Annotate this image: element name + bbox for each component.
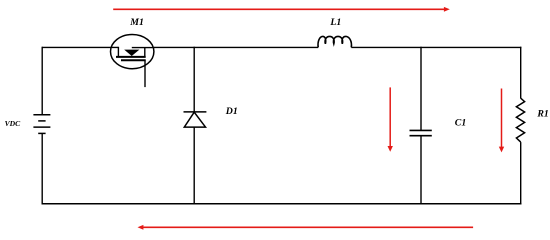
svg-text:M1: M1 [129, 17, 144, 28]
wire left vertical bottom [41, 133, 43, 204]
svg-text:VDC: VDC [5, 119, 22, 128]
current arrow bottom (return current, pointing left) [138, 225, 474, 230]
battery VDC [33, 115, 50, 134]
resistor R1 [516, 98, 524, 142]
wire top rail right [351, 46, 521, 48]
svg-text:D1: D1 [225, 106, 238, 117]
current arrow (load current, pointing down) [499, 89, 504, 153]
svg-text:L1: L1 [329, 17, 341, 28]
wire left vertical top [41, 47, 43, 115]
wire C1 bottom [420, 136, 422, 205]
transistor M1 (MOSFET) [111, 35, 155, 88]
current arrow (inductor output current, pointing down) [388, 87, 393, 151]
wire top rail left [42, 46, 118, 48]
inductor L1 [318, 36, 351, 47]
wire bottom rail [42, 203, 522, 205]
wire D1 bottom [193, 127, 195, 204]
diode D1 [184, 112, 207, 127]
svg-text:C1: C1 [455, 118, 466, 129]
wire C1 top [420, 47, 422, 131]
wire top rail middle [154, 46, 318, 48]
current arrow top (input current, pointing right) [113, 7, 450, 12]
svg-text:R1: R1 [536, 109, 548, 120]
capacitor C1 [410, 130, 432, 135]
wire R1 top [520, 47, 522, 99]
wire D1 top [193, 47, 195, 112]
wire R1 bottom [520, 142, 522, 204]
